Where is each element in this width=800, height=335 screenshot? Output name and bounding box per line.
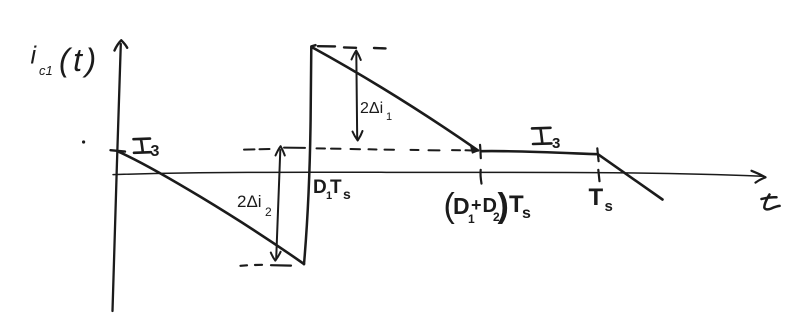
label 2Δi2	[237, 192, 272, 219]
svg-text:3: 3	[151, 143, 160, 160]
waveform segment 4: downslope after Ts	[599, 155, 663, 200]
label I3 left: hand-drawn serif I	[134, 139, 152, 153]
waveform segment 1: downslope 0..D1Ts	[118, 151, 305, 264]
svg-text:(t): (t)	[59, 42, 100, 78]
waveform segment 2: downslope D1Ts..(D1+D2)Ts	[313, 48, 479, 151]
top dashed line at peak level	[318, 46, 386, 48]
svg-text:2: 2	[265, 205, 272, 219]
svg-text:s: s	[605, 198, 613, 215]
svg-text:c1: c1	[39, 63, 53, 78]
tick on waveform at (D1+D2)Ts	[479, 145, 482, 158]
label (D1+D2)Ts	[444, 187, 532, 226]
x-axis (t axis)	[113, 172, 762, 176]
label Ts	[589, 184, 613, 215]
label i_c1(t)	[31, 42, 100, 79]
tick on t-axis at (D1+D2)Ts	[479, 170, 482, 184]
tick on waveform at Ts	[597, 148, 598, 161]
label I3 top: hand-drawn serif I	[532, 128, 552, 144]
svg-text:T: T	[330, 177, 342, 198]
svg-text:T: T	[589, 184, 604, 211]
stray dot	[82, 140, 85, 143]
svg-text:): )	[498, 187, 509, 225]
mid dashed line at I3 level	[244, 148, 472, 151]
svg-text:D: D	[313, 177, 327, 198]
svg-text:3: 3	[552, 135, 560, 152]
svg-text:+: +	[471, 195, 482, 215]
svg-text:i: i	[31, 42, 38, 70]
svg-text:2Δi: 2Δi	[237, 192, 262, 211]
svg-text:2Δi: 2Δi	[360, 100, 383, 117]
y-axis arrowhead	[115, 40, 128, 50]
waveform jump at D1Ts	[304, 45, 316, 264]
svg-text:1: 1	[386, 111, 392, 123]
double arrow 2Δi2	[276, 150, 280, 259]
tick on t-axis at Ts	[598, 170, 599, 181]
x-axis arrowhead	[752, 171, 766, 183]
y-axis	[113, 44, 121, 311]
bottom dashed line at valley level	[241, 265, 292, 266]
label t on axis	[762, 195, 780, 210]
svg-text:s: s	[343, 186, 351, 202]
arrowhead at end of segment 2	[471, 145, 479, 153]
waveform start tick through axis	[111, 150, 126, 151]
waveform segment 3: flat at I3	[481, 151, 598, 154]
double arrow 2Δi1	[355, 52, 358, 139]
svg-text:s: s	[522, 205, 531, 222]
label D1Ts	[313, 177, 351, 202]
label 2Δi1	[360, 100, 392, 123]
